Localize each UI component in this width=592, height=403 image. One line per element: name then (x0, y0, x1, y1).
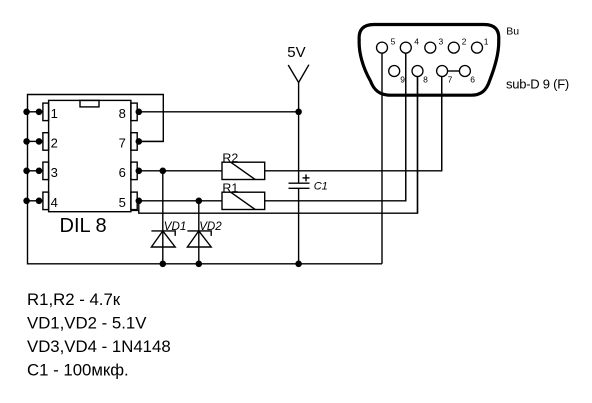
resistor R1 diagonal (231, 192, 256, 209)
junction dot pin1 (36, 109, 43, 116)
connector wire pin4 down (405, 53, 407, 201)
pin box 8 (131, 103, 137, 121)
svg-text:8: 8 (423, 74, 428, 84)
svg-text:2: 2 (51, 135, 58, 150)
svg-text:3: 3 (439, 37, 444, 47)
wire pin8 to 5V node (137, 111, 298, 113)
diode VD1 triangle (151, 231, 175, 247)
wire pin5 to R1 (137, 200, 222, 202)
wire pin5 bypass to connector pin8 (139, 76, 418, 213)
svg-text:3: 3 (51, 165, 58, 180)
svg-text:6: 6 (470, 74, 475, 84)
IC notch (80, 100, 99, 107)
pin box 3 (43, 162, 49, 180)
connector pin 7 circle (437, 66, 448, 77)
svg-text:Bu: Bu (506, 26, 519, 38)
junction dot VD1 bottom (160, 261, 167, 268)
wire pin5 node to VD2 (198, 201, 200, 264)
wire C1 to ground rail (298, 188, 300, 263)
svg-text:R1: R1 (222, 181, 238, 195)
svg-text:VD2: VD2 (199, 220, 222, 233)
wire pin3 stub (28, 170, 43, 172)
svg-text:1: 1 (51, 106, 58, 121)
junction dot pin6 (136, 168, 143, 175)
wire pin2 stub (28, 140, 43, 142)
capacitor C1 top plate (289, 182, 310, 184)
junction dot C1 bottom (295, 261, 302, 268)
svg-text:VD3,VD4 - 1N4148: VD3,VD4 - 1N4148 (27, 337, 171, 356)
junction dot rail pin2 (23, 138, 30, 145)
connector wire pin8 down (417, 76, 419, 213)
pin box 1 (43, 103, 49, 121)
junction dot pin8 (136, 109, 143, 116)
svg-text:1: 1 (484, 37, 489, 47)
connector pin 2 circle (448, 42, 459, 53)
wire pin4 stub (28, 200, 43, 202)
wire pin7 to ground loop (137, 140, 163, 142)
svg-text:9: 9 (400, 74, 405, 84)
junction dot VD1 top (160, 168, 167, 175)
wire pin6 to R2 (137, 170, 222, 172)
junction dot pin4 (36, 198, 43, 205)
capacitor C1 plus sign (303, 177, 310, 179)
connector pin 3 circle (425, 42, 436, 53)
svg-text:7: 7 (448, 74, 453, 84)
junction dot pin2 (36, 138, 43, 145)
wire ground bus loop (pin7 to top edge, left rail, bottom rail) (28, 95, 383, 264)
power 5V antenna (288, 65, 309, 83)
resistor R1 body (222, 192, 265, 209)
svg-text:4: 4 (51, 195, 58, 210)
wire pin5 box step (131, 209, 139, 212)
svg-text:7: 7 (119, 135, 126, 150)
svg-text:5V: 5V (287, 44, 305, 61)
svg-text:C1: C1 (314, 181, 328, 193)
wire 5V to C1 (298, 83, 300, 184)
svg-text:5: 5 (119, 195, 126, 210)
pin box 7 (131, 133, 137, 151)
junction dot rail pin3 (23, 168, 30, 175)
junction dot pin3 (36, 168, 43, 175)
svg-text:2: 2 (462, 37, 467, 47)
junction dot VD2 bottom (196, 261, 203, 268)
connector pin 9 circle (389, 66, 400, 77)
pin box 6 (131, 162, 137, 180)
junction dot rail pin4 (23, 198, 30, 205)
junction dot pin5 (136, 198, 143, 205)
resistor R2 diagonal (231, 162, 256, 179)
svg-text:sub-D 9 (F): sub-D 9 (F) (506, 76, 569, 91)
junction dot pin7 (136, 138, 143, 145)
resistor R2 body (222, 162, 265, 179)
wire pin1 stub (28, 111, 43, 113)
IC U1 body DIL 8 (49, 100, 131, 211)
svg-text:8: 8 (119, 106, 126, 121)
junction dot 5V node (295, 109, 302, 116)
diode VD2 zener bar (187, 231, 211, 236)
svg-text:VD1: VD1 (164, 220, 187, 233)
connector pin 6 circle (459, 66, 470, 77)
capacitor C1 bottom plate (289, 187, 310, 189)
connector X1 sub-D 9 outline (359, 25, 499, 96)
pin box 5 (131, 192, 137, 210)
connector pin 8 circle (412, 66, 423, 77)
svg-text:4: 4 (414, 37, 419, 47)
connector wire pin7 down (441, 76, 443, 171)
junction dot VD2 top (196, 198, 203, 205)
connector pin 1 circle (472, 42, 483, 53)
svg-text:6: 6 (119, 165, 126, 180)
pin box 2 (43, 133, 49, 151)
connector wire pin5 down to ground rail (381, 53, 383, 264)
svg-text:C1 - 100мкф.: C1 - 100мкф. (27, 361, 129, 380)
connector pin 4 circle (400, 42, 411, 53)
connector jumper pin7-pin6 (447, 70, 459, 72)
connector pin 5 circle (377, 42, 388, 53)
diode VD1 zener bar (151, 231, 175, 236)
svg-text:R2: R2 (222, 151, 238, 165)
svg-text:DIL 8: DIL 8 (60, 215, 107, 237)
pin box 4 (43, 192, 49, 210)
svg-text:VD1,VD2 - 5.1V: VD1,VD2 - 5.1V (27, 314, 147, 333)
wire R2 to connector pin7 (265, 76, 442, 171)
wire pin6 node to VD1 (162, 171, 164, 264)
junction dot rail pin1 (23, 109, 30, 116)
svg-text:5: 5 (391, 37, 396, 47)
diode VD2 triangle (187, 231, 211, 247)
svg-text:R1,R2 - 4.7к: R1,R2 - 4.7к (27, 290, 121, 309)
wire R1 to connector pin4 (265, 53, 406, 201)
